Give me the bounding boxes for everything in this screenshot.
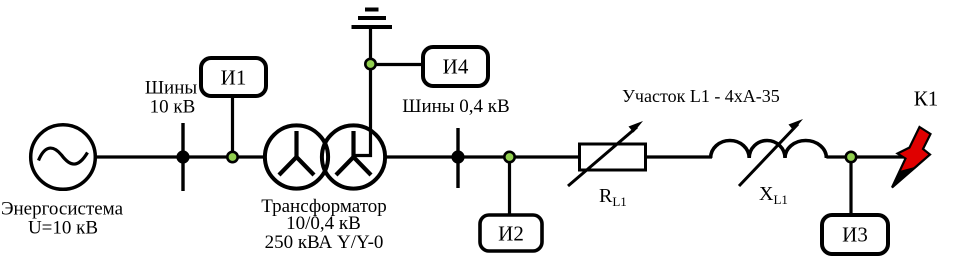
meter box И3 [822, 215, 888, 254]
fault lightning bolt К1 [892, 127, 931, 188]
wire: R to X [646, 155, 713, 158]
meter box И1 [201, 58, 266, 96]
svg-text:Участок L1 - 4хА-35: Участок L1 - 4хА-35 [622, 86, 780, 106]
arrow through inductor [739, 124, 798, 186]
node (green) at И3 tap [846, 152, 856, 162]
wire: transformer to R_L1 [384, 155, 580, 158]
svg-text:250 кВА Y/Y-0: 250 кВА Y/Y-0 [265, 232, 384, 253]
junction dot (bus 0,4kV) [451, 150, 464, 163]
svg-text:U=10 кВ: U=10 кВ [28, 218, 98, 239]
bus bar Шины 10 кВ (vertical tick) [181, 123, 184, 191]
wire: node to И1 [231, 96, 234, 157]
wire: neutral node to И4 [371, 63, 424, 66]
svg-text:К1: К1 [914, 87, 939, 111]
Y symbol (primary) [279, 131, 314, 175]
wire: source to transformer [95, 155, 267, 158]
transformer T1 secondary winding [322, 125, 385, 188]
node (green) at И1 tap [227, 152, 237, 162]
generator G1 (Энергосистема source circle) [31, 125, 96, 190]
svg-text:И4: И4 [443, 55, 469, 79]
svg-text:И3: И3 [842, 223, 868, 247]
node (green) neutral tap [365, 59, 375, 69]
meter box И4 [423, 47, 488, 86]
junction dot (bus 10kV) [176, 150, 189, 163]
svg-text:И2: И2 [498, 222, 524, 246]
ground symbol [352, 25, 393, 29]
neutral wire to ground [355, 27, 371, 156]
svg-text:Энергосистема: Энергосистема [1, 199, 124, 220]
node (green) at И2 tap [504, 152, 514, 162]
svg-text:10/0,4 кВ: 10/0,4 кВ [286, 213, 361, 234]
bolt black tail [892, 166, 919, 188]
inductor X_L1 (variable) [711, 140, 827, 158]
Y symbol (secondary) [336, 131, 371, 175]
bus bar Шины 0,4 кВ (vertical tick) [456, 128, 459, 188]
svg-text:10 кВ: 10 кВ [150, 97, 196, 118]
sine symbol inside source [39, 148, 88, 164]
wire: node to И3 [849, 157, 852, 215]
svg-text:Шины: Шины [145, 78, 198, 99]
resistor R_L1 (variable) [580, 144, 646, 170]
svg-text:Шины 0,4 кВ: Шины 0,4 кВ [402, 96, 509, 117]
meter box И2 [480, 215, 542, 251]
wire: X to fault [826, 155, 906, 158]
arrow through resistor [568, 127, 637, 186]
transformer T1 primary winding [265, 125, 328, 188]
svg-text:И1: И1 [221, 66, 247, 90]
wire: node to И2 [508, 157, 511, 215]
